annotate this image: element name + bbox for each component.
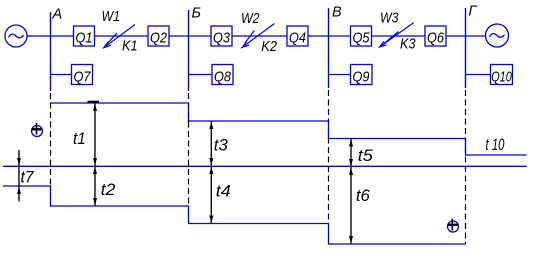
wire G1 to Q1 <box>27 35 74 37</box>
wire Q1 to Q2 <box>95 35 149 37</box>
dashed projection line under bus A <box>50 93 52 186</box>
svg-text:t 10: t 10 <box>486 135 505 154</box>
dimension arrow t7 <box>17 150 21 202</box>
svg-text:t3: t3 <box>214 136 229 155</box>
svg-text:t4: t4 <box>216 182 231 201</box>
power direction symbol right <box>448 219 459 232</box>
wire Q5 to Q6 <box>372 35 426 37</box>
dimension arrow t1 <box>93 103 97 166</box>
breaker Q10 <box>491 65 513 86</box>
dimension arrow t6 <box>349 167 353 244</box>
dashed projection line under bus Б <box>188 93 190 206</box>
tick bar at top of t1 arrow <box>88 101 100 103</box>
branch wire bus A to Q7 <box>51 74 72 76</box>
fault arrow K1 <box>104 25 135 48</box>
breaker Q7 <box>72 65 93 86</box>
svg-text:W2: W2 <box>241 10 260 27</box>
svg-text:Q4: Q4 <box>289 30 306 47</box>
bus B2 (В) <box>328 8 330 88</box>
svg-text:Г: Г <box>469 4 478 20</box>
svg-text:Q5: Q5 <box>353 30 371 47</box>
dimension arrow t2 <box>93 166 97 206</box>
svg-text:Q10: Q10 <box>491 68 512 85</box>
breaker Q1 <box>74 26 95 47</box>
wire Q3 to Q4 <box>232 35 287 37</box>
svg-text:Q3: Q3 <box>213 30 231 47</box>
breaker Q8 <box>212 65 233 86</box>
svg-text:W1: W1 <box>102 8 121 25</box>
generator G1 <box>5 25 27 47</box>
breaker Q9 <box>351 65 373 86</box>
svg-text:K3: K3 <box>400 36 416 53</box>
lower time staircase <box>3 186 466 244</box>
bus A <box>50 12 52 91</box>
svg-text:Q1: Q1 <box>76 30 93 47</box>
generator G2 <box>486 24 509 47</box>
fault arrow K3 <box>380 23 414 47</box>
wire Q2 to Q3 <box>169 35 211 37</box>
svg-text:Q8: Q8 <box>214 68 232 85</box>
svg-text:t2: t2 <box>101 180 116 199</box>
branch wire bus Б to Q8 <box>189 74 213 76</box>
branch wire bus Г to Q10 <box>466 74 491 76</box>
svg-text:t7: t7 <box>21 168 34 187</box>
svg-text:K2: K2 <box>261 38 277 55</box>
svg-text:t5: t5 <box>358 146 374 165</box>
svg-text:Q2: Q2 <box>150 30 168 47</box>
breaker Q6 <box>425 26 446 47</box>
svg-text:t1: t1 <box>73 129 86 148</box>
svg-text:Q7: Q7 <box>74 68 92 85</box>
power direction symbol left <box>32 123 43 137</box>
breaker Q5 <box>351 26 372 47</box>
upper time staircase <box>51 103 527 155</box>
dimension arrow t4 <box>209 166 213 224</box>
breaker Q4 <box>287 26 308 47</box>
dashed projection line under bus Г <box>465 90 467 244</box>
fault arrow K2 <box>242 24 275 48</box>
bus B1 (Б) <box>188 10 190 91</box>
svg-text:A: A <box>52 6 63 22</box>
dimension arrow t5 <box>349 139 353 168</box>
branch wire bus В to Q9 <box>329 74 351 76</box>
svg-text:Q9: Q9 <box>353 68 371 85</box>
svg-text:Q6: Q6 <box>427 30 445 47</box>
wire Q6 to G2 <box>446 35 486 37</box>
svg-text:t6: t6 <box>356 186 371 205</box>
breaker Q3 <box>211 26 232 47</box>
breaker Q2 <box>148 26 169 47</box>
time axis <box>3 165 527 167</box>
svg-text:Б: Б <box>192 5 201 21</box>
dashed projection line under bus В <box>328 90 330 224</box>
dimension arrow t3 <box>209 121 213 166</box>
wire Q4 to Q5 <box>308 35 351 37</box>
svg-text:В: В <box>332 4 342 20</box>
svg-text:K1: K1 <box>122 37 138 54</box>
svg-text:W3: W3 <box>380 10 399 27</box>
bus G (Г) <box>465 8 467 88</box>
